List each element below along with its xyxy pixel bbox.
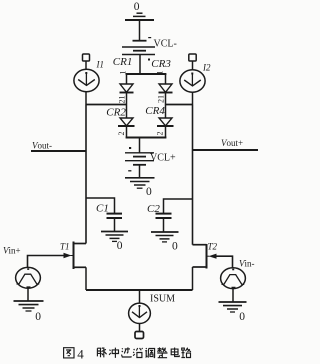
wire (left junction to rail) [86,104,127,106]
svg-text:0: 0 [117,240,123,252]
wire (right rail) [192,105,194,245]
svg-text:Vin+: Vin+ [3,246,21,256]
battery VCL- [122,38,155,61]
ground (VCL+) [125,178,155,188]
ground (Vin+) [14,301,44,311]
battery VCL+ [125,147,154,171]
svg-text:VCL+: VCL+ [150,153,176,164]
svg-text:21: 21 [157,95,166,103]
svg-text:0: 0 [134,1,140,13]
char 调 [145,348,154,358]
svg-text:0: 0 [146,186,152,198]
wire [139,165,141,178]
char 冲 [109,348,118,358]
svg-text:2: 2 [156,132,165,136]
svg-text:1: 1 [119,71,128,75]
svg-text:T2: T2 [208,242,218,252]
wire (C2 tap) [164,199,193,213]
svg-text:C1: C1 [96,202,109,214]
svg-text:T1: T1 [60,242,70,252]
svg-text:CR2: CR2 [106,107,126,119]
capacitor C2 [156,214,172,232]
pulse source Vin- [221,268,246,302]
svg-text:I1: I1 [96,60,105,70]
svg-text:ISUM: ISUM [150,293,175,304]
wire (Vout-) [31,150,86,152]
wire (bottom rung) [126,137,167,139]
char 边 [122,347,132,357]
wire (T2 source to ISUM) [192,267,194,290]
wire (C1 tap) [86,198,115,213]
ground (C2) [151,232,179,242]
pulse source Vin+ [16,267,41,301]
ground (Vin-) [219,302,247,312]
wire [139,55,141,75]
char 路 [181,348,191,358]
svg-text:Vin-: Vin- [239,259,255,269]
svg-text:CR4: CR4 [145,105,165,117]
wire (sources to ISUM) [86,289,193,291]
svg-text:CR3: CR3 [151,58,171,70]
svg-text:Vout-: Vout- [32,141,52,151]
wire [139,138,141,153]
svg-text:21: 21 [118,96,127,104]
current source I1 [74,54,99,105]
current source ISUM [129,303,151,338]
caption 图4 脉冲边沿调整电路 (drawn as vector strokes) [64,346,191,361]
wire (Vout+) [193,149,259,151]
char 图 [64,348,74,358]
svg-text:0: 0 [35,311,41,323]
svg-text:0: 0 [239,311,245,323]
svg-text:4: 4 [77,346,84,361]
char 沿 [133,348,142,358]
ground (top, inverted) [125,13,154,20]
svg-text:C2: C2 [147,203,160,215]
svg-text:2: 2 [117,132,126,136]
wire (top rung) [126,73,167,75]
svg-text:VCL-: VCL- [154,39,177,50]
transistor T1 [64,242,87,270]
wire [139,20,141,40]
diode CR2 [118,105,135,138]
diode CR1 [120,74,134,105]
wire (T1 source to ISUM) [85,267,87,290]
wire [139,290,141,303]
svg-text:Vout+: Vout+ [221,138,243,148]
transistor T2 [193,244,217,269]
wire (T1 gate) [28,256,65,268]
svg-text:CR1: CR1 [113,56,133,68]
char 电 [171,348,179,357]
svg-text:0: 0 [172,240,178,252]
diode CR4 [157,105,174,138]
char 整 [157,347,167,357]
svg-text:I2: I2 [202,63,211,73]
current source I2 [180,54,205,105]
diode CR3 [159,74,173,105]
wire (T2 gate) [216,256,233,267]
capacitor C1 [107,214,123,232]
wire (right junction to rail) [166,104,193,106]
svg-text:1: 1 [156,71,165,75]
wire (left rail) [85,105,87,244]
char 脉 [97,347,106,357]
ground (C1) [101,232,128,242]
